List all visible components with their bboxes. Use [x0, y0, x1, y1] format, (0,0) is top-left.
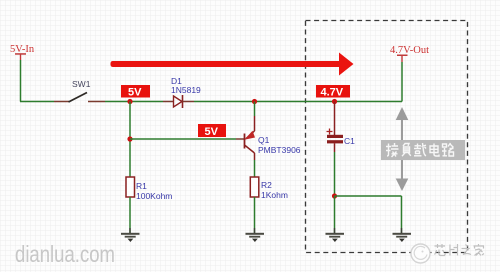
wire collector to R2: [254, 160, 256, 177]
ground (R1): [121, 228, 140, 242]
载: [414, 143, 426, 156]
wire lower right vertical: [401, 196, 403, 233]
片: [450, 244, 458, 256]
dashed load box: [306, 21, 468, 253]
junction at C1 branch: [332, 99, 337, 104]
svg-text:R2: R2: [261, 180, 272, 190]
diode D1: [163, 76, 201, 108]
ground (C1): [326, 228, 345, 242]
wire main rail diode to out corner: [194, 101, 402, 103]
junction lower right: [332, 193, 337, 198]
svg-text:1N5819: 1N5819: [171, 85, 201, 95]
svg-text:4.7V-Out: 4.7V-Out: [390, 45, 429, 56]
net label 5V (base box): [198, 124, 226, 138]
svg-text:Q1: Q1: [258, 135, 270, 145]
接: [386, 143, 399, 157]
家: [474, 244, 485, 256]
ground (load): [393, 228, 412, 242]
wire C1 to lower junction: [334, 152, 336, 196]
junction at base branch: [127, 136, 132, 141]
电: [430, 144, 439, 157]
wire input vertical: [20, 60, 22, 102]
芯: [435, 244, 446, 256]
base pin: [236, 138, 244, 140]
wire C1 branch to ground: [334, 196, 336, 233]
svg-text:5V: 5V: [205, 126, 219, 138]
svg-text:SW1: SW1: [72, 79, 91, 89]
wire R1 branch vertical: [129, 102, 131, 178]
svg-text:5V: 5V: [128, 87, 142, 99]
capacitor C1: [327, 102, 356, 153]
resistor R1: [126, 177, 172, 233]
svg-text:PMBT3906: PMBT3906: [258, 145, 301, 155]
junction at Q1 emitter: [252, 99, 257, 104]
负: [402, 143, 411, 156]
wire lower horizontal: [335, 195, 402, 197]
load label 接负载电路: [381, 140, 465, 160]
wire switch to diode: [105, 101, 163, 103]
watermark dianlua.com: [15, 241, 115, 267]
之: [462, 245, 472, 255]
svg-text:C1: C1: [344, 136, 355, 146]
wire base horizontal: [130, 138, 236, 140]
transistor Q1: [244, 116, 300, 160]
net label 5V (left box): [121, 85, 150, 99]
power port 4.7V-Out: [390, 45, 429, 102]
svg-text:1Kohm: 1Kohm: [261, 190, 288, 200]
switch SW1: [54, 79, 105, 102]
svg-text:R1: R1: [136, 181, 147, 191]
svg-text:100Kohm: 100Kohm: [136, 191, 172, 201]
svg-text:dianlua.com: dianlua.com: [15, 241, 115, 267]
watermark logo 芯片之家: [411, 244, 484, 263]
resistor R2: [250, 177, 288, 233]
big red flow arrow: [111, 53, 354, 76]
wire emitter vertical: [254, 102, 256, 117]
junction at R1 branch: [127, 99, 132, 104]
power port 5V-In: [10, 44, 35, 60]
svg-text:4.7V: 4.7V: [321, 87, 344, 99]
wire input horizontal to switch: [20, 101, 54, 103]
net label 4.7V: [316, 85, 350, 99]
gray double arrow: [396, 107, 409, 191]
ground (R2): [246, 228, 265, 242]
路: [442, 143, 454, 156]
